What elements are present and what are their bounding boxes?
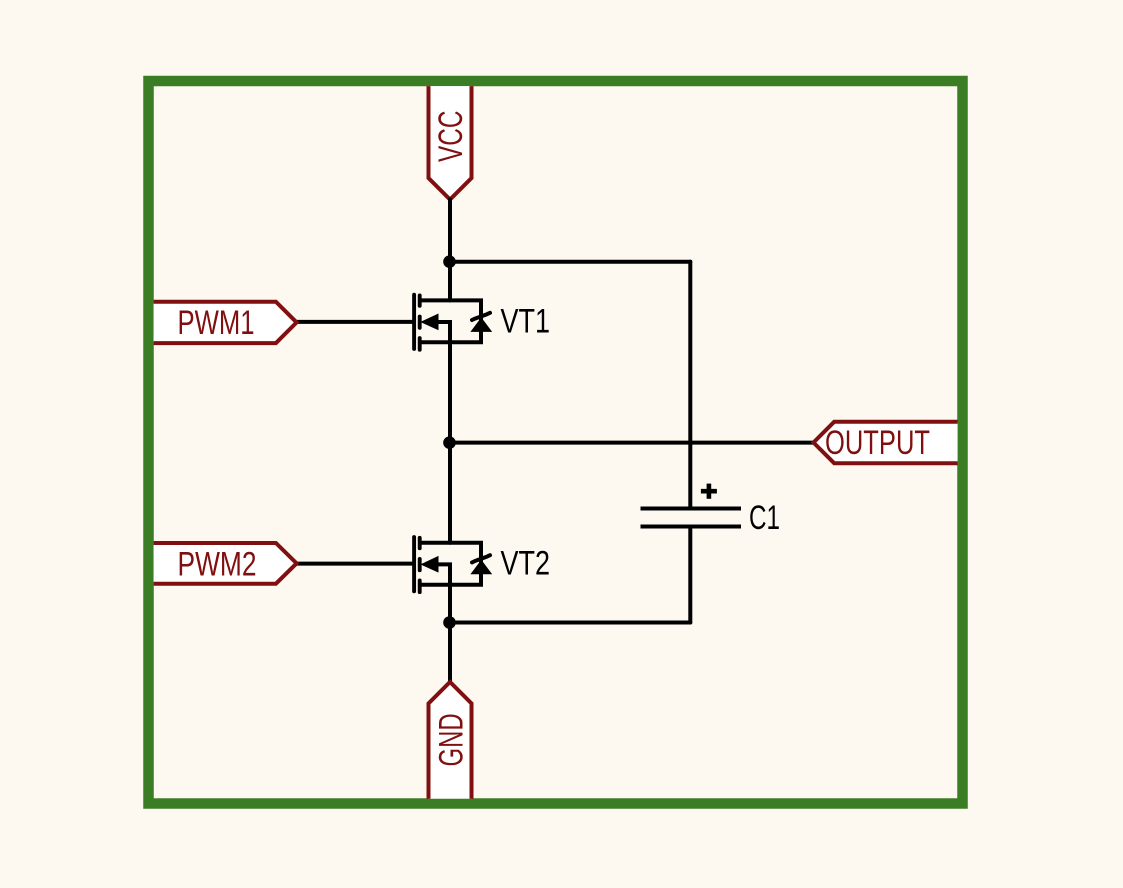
wire bottom node to right branch [450, 621, 691, 625]
junction node output [443, 436, 456, 449]
hierarchical port GND [429, 682, 472, 799]
junction node bottom [443, 616, 456, 629]
wire PWM1 to VT1 gate [297, 320, 413, 324]
svg-text:VT2: VT2 [501, 545, 551, 583]
svg-text:OUTPUT: OUTPUT [825, 424, 930, 462]
hierarchical port OUTPUT [814, 422, 958, 463]
wire right branch upper vertical [688, 262, 692, 509]
wire bottom node to GND [448, 623, 452, 682]
svg-text:GND: GND [433, 713, 471, 766]
wire PWM2 to VT2 gate [297, 562, 413, 566]
wire VT1 drain [448, 262, 452, 301]
wire right branch lower vertical [688, 527, 692, 623]
hierarchical port PWM2 [154, 543, 297, 584]
svg-text:VCC: VCC [432, 111, 470, 163]
svg-text:PWM1: PWM1 [178, 304, 255, 342]
svg-text:C1: C1 [749, 499, 780, 537]
transistor VT1 [414, 295, 491, 350]
hierarchical port VCC [429, 86, 472, 199]
wire output node to OUTPUT port [450, 441, 814, 445]
capacitor C1 polarity plus [701, 484, 717, 499]
svg-text:VT1: VT1 [501, 303, 551, 341]
hierarchical port PWM1 [154, 302, 297, 343]
svg-text:PWM2: PWM2 [178, 546, 257, 584]
wire output node to VT2 drain [448, 443, 452, 543]
capacitor C1 plates [641, 509, 742, 527]
wire VT2 source to bottom node [448, 585, 452, 623]
wire VCC to top node [448, 200, 452, 262]
junction node top [443, 255, 456, 268]
wire top node to right branch [450, 260, 690, 264]
wire VT1 source to output node [448, 342, 452, 442]
transistor VT2 [414, 537, 491, 592]
